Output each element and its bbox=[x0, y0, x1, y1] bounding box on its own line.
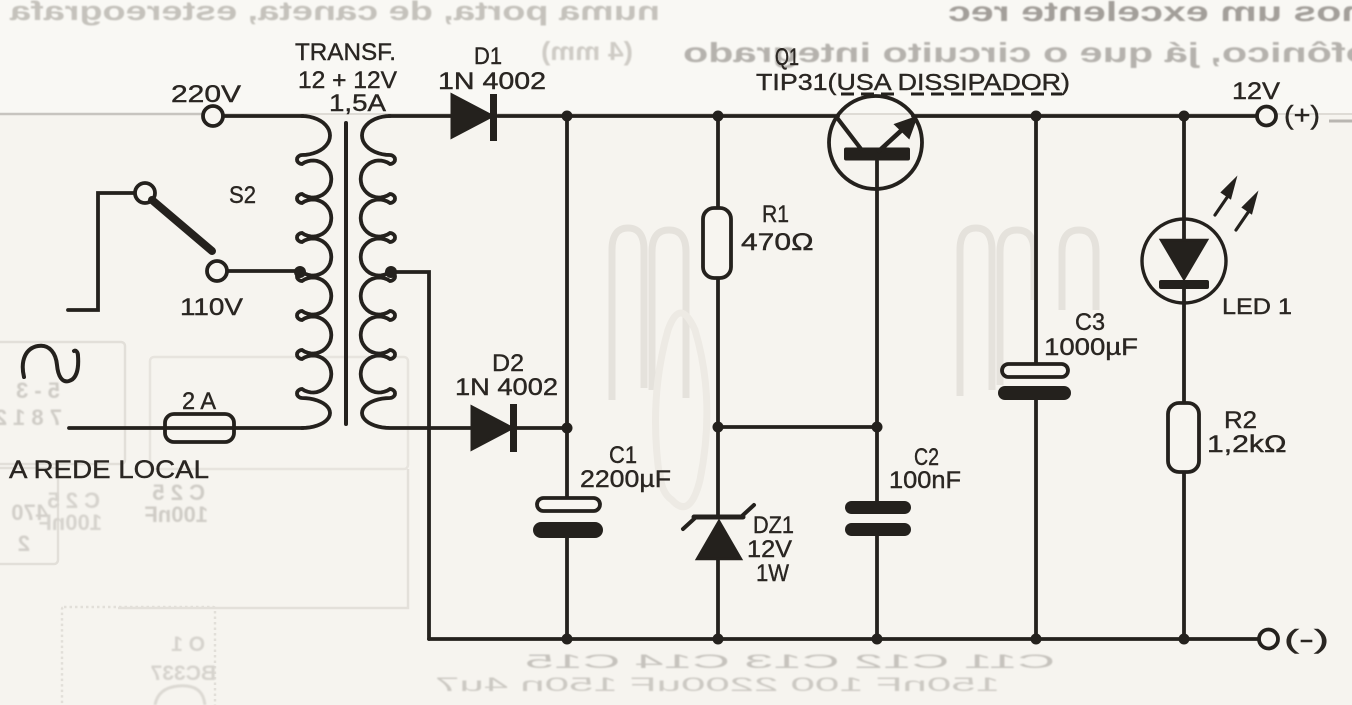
svg-text:BC337: BC337 bbox=[151, 662, 216, 685]
bleed-through ghost text top-left bbox=[9, 0, 660, 26]
svg-text:R1: R1 bbox=[762, 201, 789, 228]
wire: rectified node column x=567 bbox=[565, 116, 569, 499]
node: D2 cathode bbox=[562, 423, 573, 434]
wire: base node horizontal bbox=[718, 425, 877, 429]
svg-text:2: 2 bbox=[18, 531, 30, 556]
bleed-through ghost text bottom bbox=[435, 652, 1055, 696]
svg-text:C11 C12 C13 C14 C1: C11 C12 C13 C14 C15 bbox=[525, 652, 1055, 673]
wire: secondary top to D1 anode bbox=[389, 114, 452, 118]
node: LED top bbox=[1179, 111, 1190, 122]
svg-text:100nF: 100nF bbox=[144, 502, 208, 527]
bleed-through ghost loops center bbox=[612, 228, 1096, 507]
wire: secondary center tap to ground rail bbox=[391, 272, 429, 639]
svg-text:Q1: Q1 bbox=[775, 44, 799, 71]
wire: fuse to transformer primary bottom bbox=[234, 426, 303, 430]
capacitor C2 100nF bbox=[845, 501, 911, 514]
wire: 110V terminal to primary tap bbox=[227, 269, 299, 273]
svg-text:1N 4002: 1N 4002 bbox=[455, 374, 558, 401]
svg-text:O 1: O 1 bbox=[171, 633, 205, 656]
svg-text:110V: 110V bbox=[180, 294, 243, 321]
svg-text:LED 1: LED 1 bbox=[1222, 294, 1292, 319]
svg-text:1W: 1W bbox=[756, 560, 789, 587]
switch S2 lever bbox=[152, 200, 212, 251]
node: ground DZ1 bbox=[713, 634, 724, 645]
bleed-through ghost circle bottom-left bbox=[155, 686, 205, 705]
wire: ground rail (bottom) bbox=[429, 637, 1259, 641]
wire: D1 cathode to Q1 collector entry bbox=[498, 114, 838, 118]
LED light arrow 1 bbox=[1215, 196, 1228, 215]
wire: C3 column x=1036 bbox=[1034, 116, 1038, 365]
underline USA (dashed) bbox=[841, 93, 900, 96]
svg-text:TRANSF.: TRANSF. bbox=[295, 39, 396, 66]
svg-text:numa porta, de caneta, estereo: numa porta, de caneta, estereografa bbox=[9, 0, 660, 26]
resistor R2 1,2k bbox=[1168, 403, 1199, 472]
bleed-through ghost boxes left bbox=[0, 342, 408, 705]
node: ground C2 bbox=[872, 634, 883, 645]
node: base node left bbox=[713, 422, 724, 433]
node: D1 cathode / C1 column top bbox=[562, 111, 573, 122]
underline DISSIPADOR (dashed) bbox=[911, 93, 1062, 96]
node: ground C1 bbox=[562, 634, 573, 645]
transformer T1 secondary winding bbox=[361, 116, 472, 428]
LED light arrow 2 bbox=[1236, 211, 1249, 230]
AC source squiggle bbox=[23, 346, 78, 382]
svg-text:220V: 220V bbox=[171, 81, 241, 108]
wire: Q1 base column / C2 column x=877 bbox=[875, 161, 879, 502]
svg-text:A REDE LOCAL: A REDE LOCAL bbox=[9, 456, 209, 484]
switch S2 pivot terminal bbox=[135, 183, 155, 203]
wire: secondary bottom to D2 anode bbox=[517, 426, 567, 430]
node: ground R2 bbox=[1179, 634, 1190, 645]
svg-text:(-): (-) bbox=[1284, 624, 1329, 654]
node: primary tap bbox=[294, 266, 306, 278]
capacitor C1 2200uF bbox=[537, 498, 600, 511]
svg-text:470: 470 bbox=[11, 500, 48, 525]
terminal 12V (+) bbox=[1257, 107, 1276, 126]
transistor Q1 TIP31 bbox=[829, 96, 922, 189]
crease line bbox=[0, 113, 205, 116]
svg-text:1000µF: 1000µF bbox=[1044, 334, 1138, 361]
wire: LED/R2 column x=1184 bbox=[1182, 116, 1186, 241]
zener diode DZ1 bbox=[683, 505, 754, 559]
resistor R1 470 ohm bbox=[703, 208, 731, 278]
bleed-through ghost small texts left bbox=[0, 378, 216, 685]
wire: mains lower to fuse to transformer primary bottom bbox=[69, 426, 170, 430]
node: secondary center tap bbox=[385, 266, 397, 278]
svg-text:D2: D2 bbox=[492, 350, 524, 377]
node: base node right bbox=[872, 422, 883, 433]
wire: 220V terminal to primary top bbox=[223, 114, 303, 118]
svg-text:1,2kΩ: 1,2kΩ bbox=[1207, 431, 1287, 458]
svg-text:1,5A: 1,5A bbox=[329, 90, 386, 117]
svg-text:S2: S2 bbox=[229, 182, 256, 209]
svg-text:7 8 1 2: 7 8 1 2 bbox=[0, 405, 62, 430]
wire: mains upper stub (L-shape from S2) bbox=[68, 193, 135, 310]
wire: R1 column x=718 bbox=[716, 116, 720, 208]
transformer T1 core bbox=[344, 123, 348, 424]
bleed-through ghost text top-right line1 bbox=[948, 0, 1352, 27]
svg-text:(4 mm): (4 mm) bbox=[541, 36, 633, 66]
svg-text:1N 4002: 1N 4002 bbox=[438, 68, 546, 95]
diode D1 1N4002 bbox=[452, 94, 497, 141]
svg-text:C3: C3 bbox=[1075, 309, 1105, 336]
LED1 bbox=[1142, 178, 1257, 303]
wire: Q1 emitter exit to (+) terminal bbox=[913, 114, 1257, 118]
terminal (-) bbox=[1259, 630, 1278, 649]
bleed-through ghost text (4 mm) bbox=[541, 36, 633, 66]
terminal 110V bbox=[207, 261, 227, 281]
svg-text:(+): (+) bbox=[1284, 100, 1320, 130]
svg-text:100nF: 100nF bbox=[889, 467, 961, 494]
svg-text:mos um excelente rec: mos um excelente rec bbox=[948, 0, 1352, 27]
svg-text:R2: R2 bbox=[1224, 407, 1257, 434]
node: C3 top bbox=[1031, 111, 1042, 122]
transformer T1 primary winding bbox=[297, 116, 331, 428]
bleed-through ghost text top-right line2 bbox=[683, 37, 1352, 68]
fuse F1 2A bbox=[165, 414, 234, 442]
svg-text:C1: C1 bbox=[609, 442, 637, 469]
svg-text:D1: D1 bbox=[474, 43, 502, 70]
svg-text:2200µF: 2200µF bbox=[580, 466, 671, 493]
svg-text:150nF 100 2200uF 150n 4u7: 150nF 100 2200uF 150n 4u7 bbox=[435, 675, 1000, 696]
svg-text:470Ω: 470Ω bbox=[741, 229, 814, 256]
diode D2 1N4002 bbox=[472, 404, 517, 452]
capacitor C3 1000uF bbox=[1002, 364, 1068, 377]
node: R1 top bbox=[713, 111, 724, 122]
svg-text:12V: 12V bbox=[747, 536, 792, 563]
svg-text:DZ1: DZ1 bbox=[753, 512, 794, 539]
svg-text:TIP31(USA DISSIPADOR): TIP31(USA DISSIPADOR) bbox=[756, 69, 1070, 95]
svg-text:12V: 12V bbox=[1232, 78, 1280, 105]
node: ground C3 bbox=[1031, 634, 1042, 645]
svg-text:2 A: 2 A bbox=[182, 388, 216, 415]
terminal 220V bbox=[203, 106, 223, 126]
svg-text:5 - 3: 5 - 3 bbox=[16, 378, 60, 403]
wire through fuse bbox=[165, 426, 234, 430]
